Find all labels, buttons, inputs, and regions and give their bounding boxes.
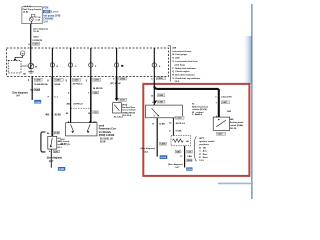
svg-text:M: M: [35, 66, 37, 68]
col5 connector arrow: [115, 98, 118, 101]
wire below ABS box: [49, 149, 53, 168]
svg-text:C290: C290: [55, 80, 61, 82]
svg-text:D Run: D Run: [199, 154, 207, 156]
gauge inner dashed box: [8, 61, 21, 73]
splice S206: [34, 88, 39, 91]
svg-text:word: word: [99, 126, 105, 128]
connector C15 right: [187, 150, 193, 153]
svg-text:(See diagram): (See diagram): [141, 148, 156, 150]
wire column1 gauge ground feed: [30, 76, 35, 100]
svg-text:C290: C290: [120, 78, 126, 80]
svg-text:C138: C138: [54, 133, 60, 135]
connector C437 below parking box: [216, 132, 225, 135]
wire column4 to FPDM: [88, 76, 94, 123]
wire column5 to switch: [113, 76, 120, 99]
wire below resistor: [182, 146, 187, 168]
svg-text:C290: C290: [157, 78, 163, 80]
connector C187 col6: [157, 100, 165, 103]
ground link G204b blue: [186, 167, 192, 170]
svg-text:C290: C290: [94, 80, 100, 82]
svg-text:M: M: [192, 103, 194, 105]
connector C290 col3: [72, 78, 80, 81]
svg-text:WPT: WPT: [199, 138, 205, 140]
svg-text:F 1.6: F 1.6: [35, 17, 41, 19]
svg-text:15-10: 15-10: [33, 31, 39, 33]
switch symbol in ABS box: [51, 138, 53, 147]
bend to horizontal feed: [154, 86, 219, 89]
wire column6 to fuel sender: [152, 76, 157, 105]
svg-text:57 BK: 57 BK: [176, 131, 182, 133]
FPDM box: [66, 123, 97, 136]
indicator circles row: [50, 48, 55, 76]
wire column2 to ABS connector: [49, 76, 56, 136]
svg-text:(See diagram): (See diagram): [12, 93, 27, 95]
connector C290 col1: [34, 78, 42, 81]
ground link G204 blue: [34, 100, 41, 104]
connector C290 col4: [93, 78, 101, 81]
connector C15: [93, 111, 99, 114]
switch symbol in col5 box: [114, 105, 119, 111]
connector C134: [175, 116, 184, 119]
svg-text:C187: C187: [120, 100, 126, 102]
connector C46: [93, 91, 99, 94]
svg-text:20 BK/WH: 20 BK/WH: [34, 84, 45, 86]
svg-text:N LED: N LED: [172, 58, 180, 60]
svg-text:20 PK/LG: 20 PK/LG: [73, 83, 83, 85]
svg-text:S206: S206: [35, 89, 41, 91]
FPDM switch left: [71, 124, 74, 131]
dashed tie line: [71, 107, 91, 109]
col5 switch box: [113, 103, 122, 113]
FPDM switch right: [87, 124, 90, 131]
svg-text:13-7: 13-7: [49, 161, 54, 163]
svg-text:fuel pump (5-M): fuel pump (5-M): [43, 15, 60, 17]
connector C270: [32, 42, 39, 45]
svg-text:126 LG/YE: 126 LG/YE: [221, 96, 232, 98]
svg-text:C290: C290: [35, 80, 41, 82]
svg-text:101-28: 101-28: [230, 128, 237, 130]
splice S206 lower: [187, 159, 192, 162]
svg-text:16B: 16B: [30, 90, 34, 92]
svg-text:C206: C206: [158, 95, 164, 97]
connector C290 col2: [54, 78, 63, 81]
parking brake switch box: [213, 117, 230, 130]
fuel sender module box: [146, 105, 183, 118]
switch symbol parking brake: [216, 120, 226, 127]
svg-text:(See diagram): (See diagram): [33, 28, 48, 30]
instrument cluster dashed box: [7, 48, 169, 76]
svg-text:O Low (mode) fuel level: O Low (mode) fuel level: [172, 61, 198, 63]
resistor dashed box: [171, 136, 191, 146]
sender switch symbol: [152, 108, 159, 115]
svg-text:12-8: 12-8: [43, 21, 48, 23]
OBDII.com link highlight: [43, 10, 50, 13]
svg-text:C270: C270: [33, 44, 39, 46]
svg-text:M Fuel gauge: M Fuel gauge: [172, 54, 187, 56]
connector C78: [53, 150, 60, 153]
wire A from sender to ground: [155, 118, 160, 157]
ground link G104b blue: [160, 155, 168, 159]
red highlight rectangle: [143, 84, 249, 176]
svg-text:B Off: B Off: [199, 147, 206, 149]
ground link G104 blue: [58, 167, 65, 171]
svg-text:S210: S210: [33, 37, 39, 39]
connector C206: [157, 94, 165, 97]
svg-text:26 16-BL 20: 26 16-BL 20: [100, 139, 113, 141]
inertia switch module box: [22, 7, 42, 24]
svg-text:PCM: PCM: [43, 7, 48, 9]
svg-text:OBD: OBD: [44, 11, 50, 14]
svg-text:26 W: 26 W: [100, 142, 106, 144]
connector C290 col5: [119, 77, 127, 80]
connector C138: [53, 131, 60, 134]
svg-text:(P30): (P30): [122, 104, 127, 106]
svg-text:13-8: 13-8: [175, 81, 180, 83]
ignition legend brace: [194, 137, 197, 162]
callout bracket: [168, 46, 171, 82]
bottom right light blue rule: [218, 180, 253, 186]
ABS sensor box: [48, 136, 57, 149]
svg-text:C187: C187: [158, 102, 164, 104]
inline connector arrow col6: [154, 101, 157, 104]
gauge ground: [30, 69, 32, 72]
svg-text:13-2: 13-2: [199, 160, 204, 162]
connector C290 col6: [156, 77, 165, 80]
svg-text:20 PK/LG: 20 PK/LG: [73, 104, 83, 106]
svg-text:16 BK: 16 BK: [159, 123, 165, 125]
feed wire from inertia switch to gauge: [28, 24, 33, 64]
svg-text:C290: C290: [73, 80, 79, 82]
indicator circle M top: [20, 51, 25, 56]
svg-text:30 BK: 30 BK: [54, 114, 61, 116]
svg-text:(See diagram): (See diagram): [47, 158, 62, 160]
svg-text:Q Check engine: Q Check engine: [172, 71, 190, 73]
connector C48: [175, 150, 181, 153]
svg-text:(See diagram): (See diagram): [168, 164, 183, 166]
wire B from sender to resistor: [171, 118, 175, 136]
connector C438: [159, 142, 166, 145]
svg-text:(VDB) HEV30: (VDB) HEV30: [122, 112, 136, 114]
wire column3 to FPDM: [68, 76, 73, 123]
svg-text:21 RD/YE: 21 RD/YE: [32, 40, 42, 42]
ABS connector bracket: [41, 132, 46, 152]
wire to parking brake switch: [215, 89, 223, 117]
inertia switch symbol: [31, 14, 35, 17]
browser edge line: [249, 4, 254, 199]
fuel gauge with needle: [21, 65, 28, 67]
